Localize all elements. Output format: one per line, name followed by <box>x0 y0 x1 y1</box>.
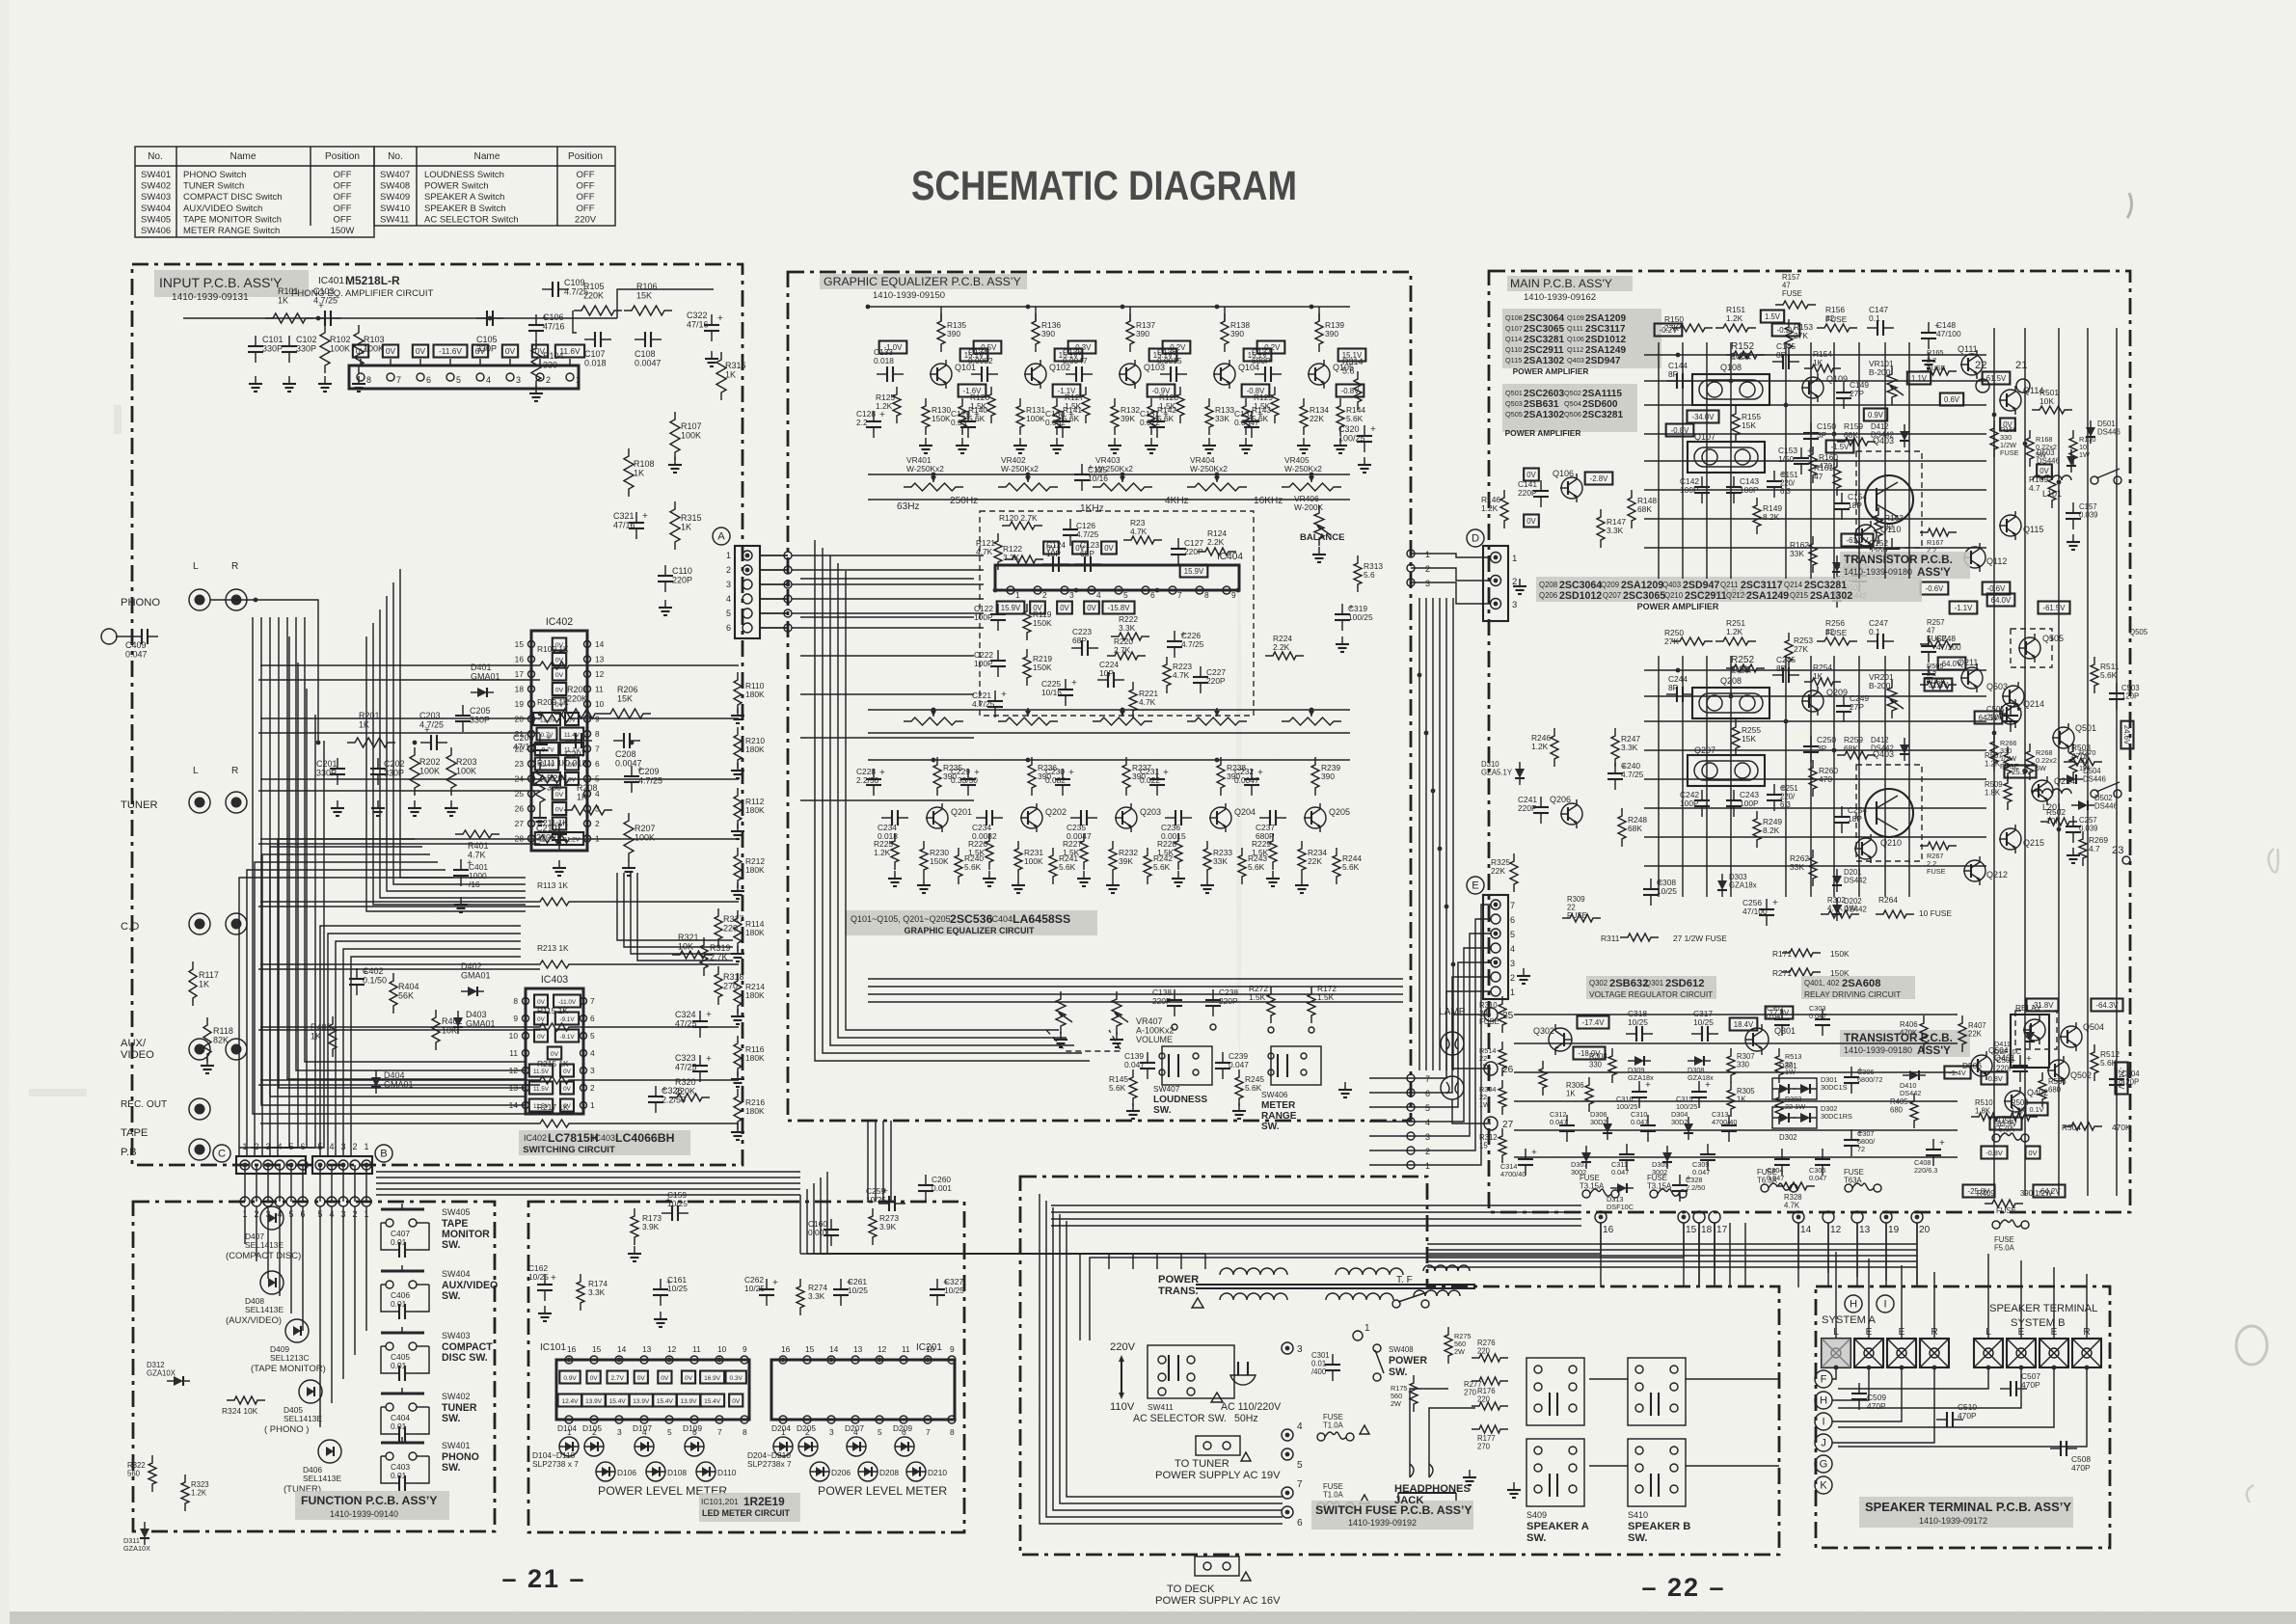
wire <box>260 1123 532 1124</box>
svg-text:TRANSISTOR P.C.B.: TRANSISTOR P.C.B. <box>1844 553 1953 566</box>
pin 6 <box>743 623 752 633</box>
FUNCTION PCB block border <box>133 1202 495 1531</box>
C507 <box>2000 1388 2011 1390</box>
svg-text:2: 2 <box>546 375 551 385</box>
svg-text:-15.8V: -15.8V <box>1108 604 1131 612</box>
svg-text:FUNCTION P.C.B. ASS’Y: FUNCTION P.C.B. ASS’Y <box>301 1494 437 1507</box>
svg-text:10/25: 10/25 <box>1628 1017 1648 1027</box>
svg-text:470K: 470K <box>1900 1029 1918 1038</box>
svg-text:5: 5 <box>1123 590 1128 600</box>
capacitor C320 <box>1364 425 1365 436</box>
VR406 balance <box>1314 505 1324 546</box>
voltage label <box>534 1030 548 1042</box>
svg-text:0.039: 0.039 <box>2079 825 2098 833</box>
svg-text:R264: R264 <box>1878 895 1898 905</box>
svg-text:3.3K: 3.3K <box>1003 553 1020 562</box>
power darlington dashed <box>1856 451 1922 548</box>
svg-text:11.2V: 11.2V <box>564 837 581 844</box>
svg-text:C205: C205 <box>470 706 491 716</box>
IC201 box <box>771 1360 955 1420</box>
IC402 pin 16 <box>528 656 535 663</box>
capacitor C323 <box>699 1055 701 1066</box>
svg-text:VR407: VR407 <box>1136 1016 1163 1026</box>
ground <box>324 376 326 384</box>
R322 <box>149 1455 156 1492</box>
svg-text:Q501: Q501 <box>1505 389 1523 397</box>
svg-text:-61.5V: -61.5V <box>2043 604 2066 612</box>
R310 <box>1499 996 1506 1033</box>
svg-text:COMPACT DISC Switch: COMPACT DISC Switch <box>183 192 283 203</box>
C510 <box>1936 1419 1947 1421</box>
wires to system terminals <box>1832 1367 1836 1379</box>
svg-text:27: 27 <box>1502 1120 1514 1130</box>
capacitor C224 <box>1097 679 1108 681</box>
resistor R105 <box>574 306 622 315</box>
capacitor 3P <box>1810 736 1812 746</box>
svg-text:4.7K 1W: 4.7K 1W <box>1827 905 1857 913</box>
IC403 box <box>526 988 583 1114</box>
svg-text:S410: S410 <box>1628 1510 1648 1520</box>
svg-text:IC404: IC404 <box>1217 552 1243 562</box>
svg-text:R271: R271 <box>1772 968 1792 978</box>
svg-text:9: 9 <box>1231 590 1236 600</box>
switch SW403 <box>381 1332 424 1335</box>
transistor Q201 <box>927 807 948 828</box>
R325 <box>1510 853 1518 892</box>
ground <box>664 600 666 608</box>
svg-text:6: 6 <box>1425 1089 1430 1098</box>
svg-text:470P: 470P <box>2021 1380 2040 1390</box>
R323 <box>181 1475 189 1511</box>
svg-text:0V: 0V <box>568 777 577 784</box>
svg-text:100K: 100K <box>1024 856 1043 866</box>
R312 <box>1499 1128 1506 1163</box>
C504 <box>2116 1069 2118 1079</box>
capacitor C222 <box>997 650 999 661</box>
D313 <box>1617 1183 1627 1193</box>
IC402 pin 22 <box>528 745 535 752</box>
resistor R230 <box>920 841 928 878</box>
D411 <box>2025 1032 2035 1042</box>
svg-text:R108: R108 <box>634 459 655 469</box>
svg-text:0.33/50: 0.33/50 <box>951 775 978 785</box>
resistor R137 <box>1126 313 1134 352</box>
svg-text:Q214: Q214 <box>2023 699 2044 709</box>
svg-text:C: C <box>218 1149 226 1160</box>
IC402 pin 19 <box>528 701 535 708</box>
svg-text:SW411: SW411 <box>380 214 409 225</box>
R269 <box>2079 831 2087 866</box>
svg-text:Q211: Q211 <box>1720 581 1739 589</box>
svg-text:D: D <box>1472 533 1479 545</box>
svg-text:R102: R102 <box>330 335 351 344</box>
svg-text:SW406: SW406 <box>141 226 171 236</box>
svg-text:LED METER CIRCUIT: LED METER CIRCUIT <box>702 1508 791 1518</box>
svg-text:4: 4 <box>1096 590 1101 600</box>
svg-text:R318: R318 <box>723 972 744 982</box>
svg-text:14: 14 <box>1800 1225 1812 1235</box>
svg-text:Q212: Q212 <box>1986 870 2008 880</box>
svg-text:1410-1939-09150: 1410-1939-09150 <box>873 290 945 301</box>
speaker bus horizontals <box>1427 1243 1917 1245</box>
svg-text:No.: No. <box>148 151 163 162</box>
resistor R320 <box>669 1094 710 1101</box>
svg-text:1410-1939-09180: 1410-1939-09180 <box>1844 1045 1912 1055</box>
svg-text:0V: 0V <box>732 1398 741 1405</box>
svg-text:W-250Kx2: W-250Kx2 <box>906 464 944 474</box>
voltage label <box>553 698 566 711</box>
svg-text:C106: C106 <box>543 312 564 322</box>
svg-text:0.6V: 0.6V <box>1944 395 1960 404</box>
svg-text:2.2/50: 2.2/50 <box>1686 1183 1705 1192</box>
capacitor C228 <box>873 769 875 779</box>
IC402 pin 21 <box>528 731 535 738</box>
resistor R139 <box>1315 313 1323 352</box>
svg-text:250Hz: 250Hz <box>950 496 978 506</box>
svg-text:D109: D109 <box>683 1423 702 1433</box>
ground <box>1303 438 1305 446</box>
transistors Q114 Q115 <box>2000 703 2021 724</box>
svg-text:SLP2738 x 7: SLP2738 x 7 <box>532 1459 579 1469</box>
svg-text:IC403: IC403 <box>592 1133 615 1143</box>
resistor R127 <box>1082 387 1090 423</box>
svg-text:15: 15 <box>592 1344 602 1354</box>
svg-text:8.2K: 8.2K <box>1763 826 1780 835</box>
svg-text:T3.15A: T3.15A <box>1647 1182 1672 1191</box>
svg-text:24: 24 <box>515 774 525 784</box>
svg-text:W-250Kx2: W-250Kx2 <box>1284 464 1322 474</box>
svg-text:1: 1 <box>364 1142 368 1151</box>
svg-text:4: 4 <box>1425 1118 1430 1127</box>
svg-text:68K: 68K <box>1844 744 1858 753</box>
svg-text:0.01: 0.01 <box>391 1421 407 1431</box>
svg-text:11: 11 <box>509 1048 518 1058</box>
pin <box>315 1160 325 1170</box>
svg-text:5.6: 5.6 <box>1364 570 1375 580</box>
svg-text:30D2: 30D2 <box>1590 1118 1607 1126</box>
IC404 pin 7 <box>1169 586 1176 594</box>
svg-text:3: 3 <box>1069 590 1074 600</box>
svg-text:LA6458SS: LA6458SS <box>1013 912 1070 926</box>
connector B box <box>312 1156 372 1174</box>
ground <box>377 800 379 808</box>
wire <box>1224 307 1226 321</box>
FHIJGK letters <box>1815 1370 1832 1388</box>
svg-text:C322: C322 <box>687 311 708 320</box>
svg-text:DS446: DS446 <box>2037 457 2060 466</box>
capacitor C409 <box>131 636 142 637</box>
capacitor C235 <box>1070 817 1081 819</box>
svg-text:GZA18x: GZA18x <box>1729 881 1757 890</box>
svg-text:470K: 470K <box>2112 1123 2131 1132</box>
caps 100P <box>1701 790 1703 800</box>
svg-text:SW405: SW405 <box>141 214 171 225</box>
resistor R245 <box>1235 1069 1243 1106</box>
resistor R217 <box>532 1120 577 1127</box>
IC403 pin 13 <box>523 1085 529 1092</box>
paper artifacts <box>29 193 2278 1502</box>
resistor R226 <box>986 833 993 870</box>
INPUT PCB ASSY label <box>154 270 309 297</box>
svg-text:AUX/VIDEO Switch: AUX/VIDEO Switch <box>183 203 262 214</box>
svg-text:Q112: Q112 <box>1986 556 2007 566</box>
C256 <box>1766 899 1768 909</box>
svg-text:10/16: 10/16 <box>1041 688 1062 697</box>
svg-text:20: 20 <box>515 715 525 724</box>
IC402 pin 18 <box>528 686 535 692</box>
resistor R221 <box>1129 682 1137 718</box>
diode D404 <box>371 1077 381 1087</box>
svg-text:68P: 68P <box>1072 636 1087 645</box>
svg-text:0V: 0V <box>685 1375 693 1382</box>
svg-text:D403: D403 <box>466 1010 487 1019</box>
IC402 pin 23 <box>528 761 535 768</box>
svg-text:0.01: 0.01 <box>391 1237 407 1247</box>
svg-text:+: + <box>1807 447 1813 457</box>
capacitor C206 <box>539 734 541 744</box>
switching circuit label <box>519 1130 690 1155</box>
svg-text:0.3V: 0.3V <box>730 1375 743 1382</box>
svg-text:4.7K: 4.7K <box>1784 1202 1800 1210</box>
svg-text:0.01: 0.01 <box>391 1299 407 1309</box>
svg-text:Q109: Q109 <box>1826 374 1848 384</box>
capacitor C208 <box>613 740 624 742</box>
capacitor C203 <box>420 742 431 744</box>
svg-text:VOLTAGE REGULATOR CIRCUIT: VOLTAGE REGULATOR CIRCUIT <box>1589 989 1713 999</box>
R146 <box>1500 490 1508 528</box>
capacitor C123 <box>1074 563 1085 565</box>
resistor R224 <box>1265 652 1304 660</box>
voltage label <box>959 385 986 397</box>
svg-text:-24.6V: -24.6V <box>2117 1068 2125 1091</box>
svg-text:C321: C321 <box>613 511 635 521</box>
svg-text:FUSE: FUSE <box>1927 635 1947 643</box>
IC402 pin 15 <box>528 641 535 648</box>
IC404 pin 1 <box>1007 586 1014 594</box>
svg-text:C323: C323 <box>675 1053 696 1063</box>
IC403 pin 8 <box>523 998 529 1005</box>
svg-text:D105: D105 <box>582 1423 602 1433</box>
svg-text:1410-1939-09172: 1410-1939-09172 <box>1919 1516 1987 1526</box>
resistor R204 <box>535 762 545 810</box>
svg-text:390: 390 <box>1136 329 1149 338</box>
svg-text:Q206: Q206 <box>1539 591 1557 600</box>
svg-text:C101: C101 <box>262 335 284 344</box>
svg-text:11.1V: 11.1V <box>539 837 555 844</box>
led D105 <box>584 1437 604 1456</box>
vertical bus GE bottom to meters <box>867 1121 869 1202</box>
R275 <box>1445 1327 1452 1364</box>
svg-text:82K: 82K <box>213 1036 229 1045</box>
svg-text:R203: R203 <box>456 757 477 767</box>
diode D403 <box>453 1017 463 1027</box>
svg-text:7: 7 <box>1425 1074 1430 1084</box>
svg-text:R314: R314 <box>1342 357 1364 366</box>
C316 <box>1638 1081 1640 1092</box>
R274 <box>797 1279 804 1315</box>
phono jack R <box>226 589 247 610</box>
svg-text:13: 13 <box>853 1344 863 1354</box>
IC402 pin 2 <box>584 821 591 827</box>
capacitor 220/6.3 <box>1773 471 1775 481</box>
svg-text:C110: C110 <box>672 566 692 576</box>
svg-text:-11.0V: -11.0V <box>538 717 556 724</box>
svg-text:C108: C108 <box>635 349 656 359</box>
svg-text:5.6K: 5.6K <box>1059 862 1076 872</box>
svg-text:TO DECK: TO DECK <box>1167 1583 1215 1595</box>
IC403 pin 5 <box>581 1033 587 1040</box>
svg-text:3: 3 <box>1425 579 1430 588</box>
IC402 pin 10 <box>584 701 591 708</box>
component C311 <box>1626 1144 1628 1154</box>
svg-text:P.B: P.B <box>121 1147 137 1158</box>
IC402 pin 27 <box>528 821 535 827</box>
switch SW401 <box>381 1442 424 1445</box>
svg-text:1.5K: 1.5K <box>968 848 986 857</box>
svg-text:GMA01: GMA01 <box>461 971 491 981</box>
speaker terminal riser wires <box>1835 1252 1837 1339</box>
svg-text:1.5K: 1.5K <box>1157 848 1175 857</box>
diode D402 <box>468 987 477 996</box>
svg-text:1K: 1K <box>1737 1096 1746 1104</box>
resistor R237 <box>1122 757 1130 796</box>
IC402 pin 6 <box>584 761 591 768</box>
volume pots <box>1056 991 1066 1034</box>
svg-text:220V: 220V <box>1110 1341 1136 1353</box>
svg-text:0V: 0V <box>555 702 564 709</box>
svg-text:2SA1115: 2SA1115 <box>1582 389 1622 399</box>
capacitor C131 <box>1156 411 1158 421</box>
IC402 pin 9 <box>584 716 591 722</box>
resistor R208 <box>564 805 612 815</box>
svg-text:-61.0V: -61.0V <box>1847 536 1870 545</box>
svg-text:220P: 220P <box>1518 488 1537 498</box>
svg-text:1.5V: 1.5V <box>1765 312 1781 321</box>
svg-text:+: + <box>1068 768 1074 778</box>
svg-text:1410-1939-09192: 1410-1939-09192 <box>1348 1518 1417 1528</box>
D311 <box>140 1529 149 1538</box>
svg-text:FUSE: FUSE <box>1927 867 1946 876</box>
svg-text:-1.1V: -1.1V <box>1955 604 1973 612</box>
svg-text:SW.: SW. <box>1261 1122 1280 1132</box>
vertical boxed 24.6V <box>2121 721 2134 749</box>
svg-text:2: 2 <box>1510 973 1515 983</box>
wire <box>260 1026 532 1028</box>
IC404 box <box>995 565 1239 590</box>
AC plug <box>1238 1362 1248 1375</box>
connector D <box>1467 529 1484 547</box>
ground <box>358 376 360 384</box>
svg-text:10/25: 10/25 <box>848 1286 868 1295</box>
voltage label <box>1163 341 1191 354</box>
svg-text:220P: 220P <box>1219 996 1238 1006</box>
svg-text:0.1V: 0.1V <box>2029 1105 2043 1114</box>
svg-text:R319: R319 <box>710 943 731 953</box>
svg-text:2SA1249: 2SA1249 <box>1746 590 1789 602</box>
svg-text:7: 7 <box>1297 1479 1303 1490</box>
svg-text:TUNER Switch: TUNER Switch <box>183 181 244 192</box>
R173 <box>631 1208 638 1245</box>
svg-text:Q503: Q503 <box>1986 682 2008 691</box>
svg-text:2SC2603: 2SC2603 <box>1524 389 1564 399</box>
svg-text:2SB631: 2SB631 <box>1524 399 1559 410</box>
svg-text:8: 8 <box>595 729 600 739</box>
IC403 pin 4 <box>581 1050 587 1057</box>
svg-text:Q401: Q401 <box>1994 1053 2015 1063</box>
svg-text:SWITCHING CIRCUIT: SWITCHING CIRCUIT <box>523 1145 615 1155</box>
svg-text:15: 15 <box>805 1344 815 1354</box>
svg-text:C409: C409 <box>125 640 147 650</box>
fuse T1.0A 1 <box>1317 1433 1325 1441</box>
R504 <box>2064 1123 2102 1130</box>
led D207 <box>847 1437 866 1456</box>
svg-text:5.6K: 5.6K <box>1109 1083 1126 1093</box>
svg-text:Q505: Q505 <box>1505 410 1523 419</box>
pin 14 <box>615 1356 623 1364</box>
svg-text:OFF: OFF <box>334 203 352 214</box>
led D210 <box>906 1462 926 1481</box>
svg-text:30DC1S: 30DC1S <box>1821 1083 1848 1092</box>
svg-text:1K: 1K <box>1813 358 1823 367</box>
resistor R107 <box>670 412 680 460</box>
wire bottom rail <box>868 759 1350 761</box>
svg-text:120P: 120P <box>2121 692 2139 701</box>
svg-text:S409: S409 <box>1526 1510 1547 1520</box>
wire <box>1318 307 1320 321</box>
svg-text:0V: 0V <box>2003 420 2012 429</box>
svg-text:DS442: DS442 <box>1844 877 1867 885</box>
resistor fuse 1.2K <box>1726 664 1765 672</box>
resistor R140 <box>959 398 966 435</box>
led D208 <box>858 1462 878 1481</box>
ground <box>1206 878 1208 885</box>
IC403 pin 2 <box>581 1085 587 1092</box>
svg-text:2SC2911: 2SC2911 <box>1685 590 1727 602</box>
capacitor C107 <box>584 338 595 340</box>
pin 2 <box>743 565 752 575</box>
svg-text:W-250Kx2: W-250Kx2 <box>1190 464 1228 474</box>
resistor R316 <box>716 352 726 400</box>
svg-text:10/25: 10/25 <box>667 1199 688 1208</box>
SPEAKER TERMINAL block border <box>1816 1286 2110 1548</box>
svg-text:0V: 0V <box>386 346 396 356</box>
svg-text:R101: R101 <box>278 286 299 296</box>
voltage label <box>553 668 566 681</box>
svg-text:2.2K: 2.2K <box>1273 642 1290 652</box>
voltage label <box>553 818 566 830</box>
terminal sq <box>1920 1339 1949 1367</box>
svg-text:T1.0A: T1.0A <box>1323 1421 1344 1430</box>
svg-text:5.6K: 5.6K <box>1248 862 1265 872</box>
transistor Q105 <box>1309 364 1330 385</box>
resistor R132 <box>1111 398 1119 435</box>
R511 <box>2091 657 2098 693</box>
svg-text:100K: 100K <box>681 431 701 441</box>
transformer secondary coils <box>1220 1293 1287 1300</box>
capacitor C132 <box>1251 411 1253 421</box>
svg-text:METER RANGE Switch: METER RANGE Switch <box>183 226 280 236</box>
capacitor C223 <box>1071 647 1082 649</box>
C141 <box>1540 480 1542 491</box>
svg-text:2.2/50: 2.2/50 <box>662 1096 686 1105</box>
resistor R232 <box>1109 841 1117 878</box>
svg-text:0V: 0V <box>568 762 577 769</box>
resistor R134 <box>1300 398 1308 435</box>
svg-text:180K: 180K <box>745 690 765 699</box>
capacitor C321 <box>635 512 637 523</box>
pin 5 <box>446 373 454 381</box>
voltage label <box>534 1013 548 1025</box>
